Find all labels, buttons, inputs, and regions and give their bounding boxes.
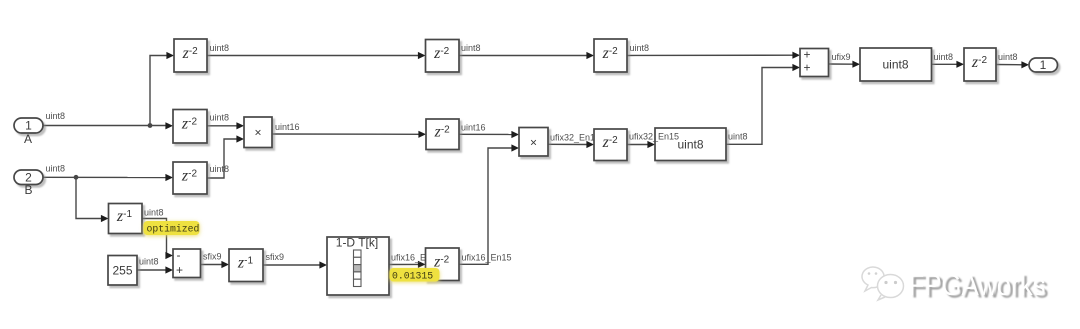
arrowhead into D8 xyxy=(101,215,109,222)
svg-text:uint8: uint8 xyxy=(728,132,748,142)
svg-text:uint8: uint8 xyxy=(46,164,66,174)
svg-text:uint8: uint8 xyxy=(677,138,703,152)
wire sum A1 to convert C2 xyxy=(829,63,855,65)
svg-text:ufix32_En15: ufix32_En15 xyxy=(629,132,679,142)
svg-text:B: B xyxy=(24,183,32,197)
product M2 xyxy=(519,128,548,157)
svg-text:sfix9: sfix9 xyxy=(266,252,285,262)
wire D10 up to product M2 input2 xyxy=(459,148,513,264)
delay D3 xyxy=(594,39,627,72)
svg-text:uint8: uint8 xyxy=(210,43,230,53)
subtract S1 xyxy=(173,249,201,278)
signal labels xyxy=(46,43,1018,267)
svg-text:optimized: optimized xyxy=(147,224,200,235)
svg-text:1-D T[k]: 1-D T[k] xyxy=(336,236,378,250)
svg-text:uint8: uint8 xyxy=(998,52,1018,62)
arrowhead into M1 input2 xyxy=(236,135,244,142)
svg-text:uint8: uint8 xyxy=(144,208,164,218)
node B-junction xyxy=(74,175,79,180)
svg-text:uint16: uint16 xyxy=(461,123,486,133)
wire L1 to delay D10 xyxy=(389,263,420,265)
svg-text:ufix9: ufix9 xyxy=(832,52,851,62)
svg-text:uint8: uint8 xyxy=(934,52,954,62)
svg-text:uint8: uint8 xyxy=(139,257,159,267)
lookup L1 table icon xyxy=(354,250,362,287)
svg-text:×: × xyxy=(530,136,537,150)
svg-text:uint8: uint8 xyxy=(630,43,650,53)
convert C2 uint8 xyxy=(860,48,932,81)
delay D6 xyxy=(594,129,627,161)
wire D7 to product M1 input2 xyxy=(207,139,238,178)
block texts xyxy=(24,45,1047,287)
svg-text:uint8: uint8 xyxy=(461,43,481,53)
svg-text:0.01315: 0.01315 xyxy=(392,271,433,282)
delay D2 xyxy=(426,40,460,73)
svg-text:uint8: uint8 xyxy=(46,111,66,121)
svg-text:-: - xyxy=(177,248,181,262)
wire S1 to delay D9 xyxy=(201,264,224,266)
svg-text:ufix16_En15: ufix16_En15 xyxy=(462,253,512,263)
svg-text:255: 255 xyxy=(112,264,132,278)
wire M1 to delay D5 xyxy=(272,133,420,135)
delay D7 xyxy=(173,162,207,194)
wire B port to delay D7 xyxy=(43,176,167,178)
product M1 xyxy=(244,117,272,148)
svg-text:uint8: uint8 xyxy=(210,164,230,174)
wire constant K1 to subtract S1 plus input xyxy=(137,269,167,271)
arrowhead into D11 xyxy=(956,61,964,68)
svg-text:+: + xyxy=(804,61,811,75)
outport 1 xyxy=(1029,58,1058,72)
delay D11 xyxy=(964,48,996,81)
wire M2 to delay D6 xyxy=(548,143,589,145)
arrowhead into D4 xyxy=(165,122,173,129)
svg-text:uint16: uint16 xyxy=(275,122,300,132)
arrowhead into M2 input1 xyxy=(511,131,519,138)
svg-text:1: 1 xyxy=(25,119,32,133)
svg-text:×: × xyxy=(254,126,261,140)
arrowhead into L1 xyxy=(319,261,327,268)
wire junction up to delay D1 xyxy=(150,56,168,126)
delay D9 xyxy=(229,249,263,282)
svg-text:uint8: uint8 xyxy=(882,58,908,72)
svg-text:1: 1 xyxy=(1040,58,1047,72)
watermark wechat icon xyxy=(862,267,903,300)
highlight optimized xyxy=(144,221,200,235)
arrowhead into C1 xyxy=(647,141,655,148)
highlight 0.01315 xyxy=(390,268,440,282)
arrowhead into D6 xyxy=(586,141,594,148)
arrowhead into D5 xyxy=(418,131,426,138)
svg-text:FPGAworks: FPGAworks xyxy=(909,269,1046,302)
delay D8 xyxy=(109,204,143,234)
wire D3 to sum A1 input1 xyxy=(627,54,794,56)
arrowhead into S1 minus xyxy=(165,252,173,259)
arrowhead into out port xyxy=(1021,61,1029,68)
constant K1 255 xyxy=(108,256,137,286)
arrowhead into C2 xyxy=(852,61,860,68)
wires layer xyxy=(43,55,1023,270)
wire junction down to delay D8 xyxy=(76,177,103,218)
arrowhead into A1 input2 xyxy=(792,64,800,71)
delay D1 xyxy=(174,39,207,72)
arrowhead into M2 input2 xyxy=(511,144,519,151)
svg-text:sfix9: sfix9 xyxy=(203,252,222,262)
arrowheads layer xyxy=(101,52,1029,274)
wire D6 to convert C1 xyxy=(627,144,649,146)
inport 1 A xyxy=(14,118,43,133)
arrowhead into D10 xyxy=(418,261,426,268)
convert C1 uint8 xyxy=(655,128,726,161)
sum A1 xyxy=(800,49,829,77)
wire D2 to D3 xyxy=(459,55,588,57)
arrowhead into D9 xyxy=(221,261,229,268)
wire D4 to product M1 input1 xyxy=(207,125,238,127)
wire D5 to product M2 input1 xyxy=(459,133,513,135)
wire D9 to lookup L1 xyxy=(263,264,321,266)
wire A port to delay D4 xyxy=(43,125,167,127)
svg-text:uint8: uint8 xyxy=(210,113,230,123)
node A-junction xyxy=(148,123,153,128)
arrowhead into D2 xyxy=(418,52,426,59)
under-block signal labels xyxy=(391,133,600,263)
arrowhead into S1 plus xyxy=(165,266,173,273)
lookup table L1 xyxy=(327,237,389,295)
svg-text:ufix32_En15: ufix32_En15 xyxy=(550,133,600,143)
wire C1 up to sum A1 input2 xyxy=(726,68,794,145)
svg-text:A: A xyxy=(24,132,32,146)
arrowhead into D1 xyxy=(166,52,174,59)
svg-text:+: + xyxy=(804,48,811,62)
wire D11 to out port xyxy=(996,64,1023,66)
arrowhead into A1 input1 xyxy=(792,52,800,59)
svg-text:+: + xyxy=(176,263,183,277)
arrowhead into M1 input1 xyxy=(236,122,244,129)
wire D1 to D2 xyxy=(207,55,420,57)
wire C2 to delay D11 xyxy=(932,63,959,65)
watermark text FPGAworks xyxy=(909,269,1049,305)
delay D5 xyxy=(426,119,459,150)
wire D8 down to subtract S1 minus input xyxy=(142,219,167,256)
delay D10 xyxy=(426,248,460,281)
delay D4 xyxy=(173,110,207,144)
arrowhead into D7 xyxy=(165,174,173,181)
inport 2 B xyxy=(14,170,43,185)
arrowhead into D3 xyxy=(586,52,594,59)
blocks with shadows xyxy=(14,39,1058,295)
